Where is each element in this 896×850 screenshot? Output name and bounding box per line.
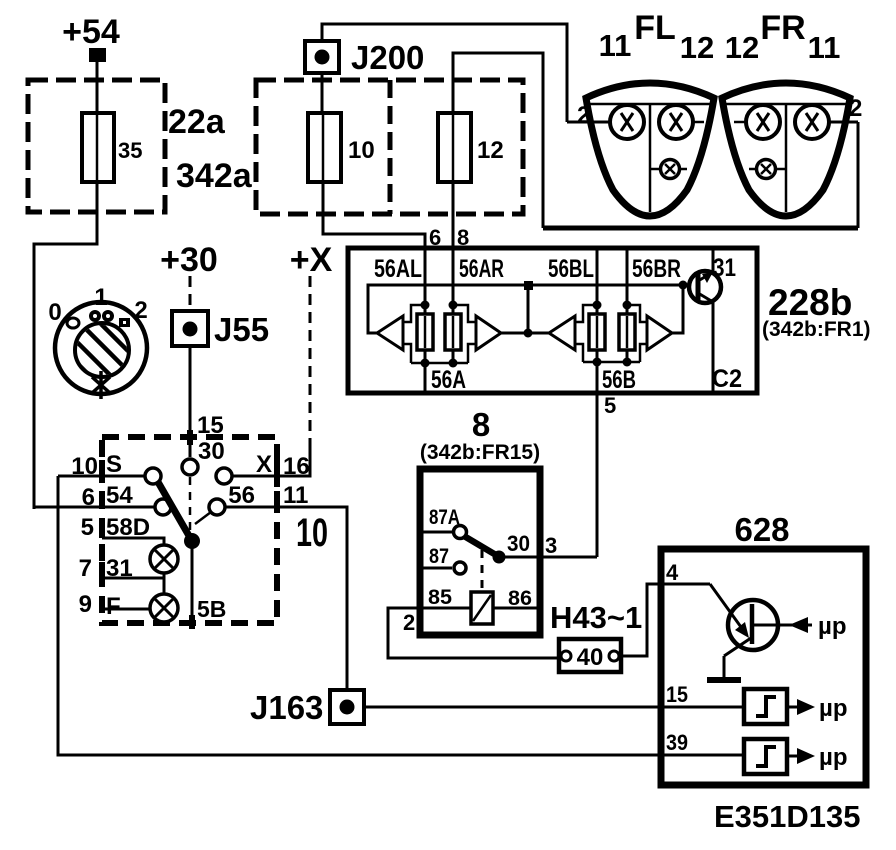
fuse box border [256,80,523,214]
wire +X to switch pin 16 [277,438,310,476]
svg-text:+X: +X [290,241,333,279]
svg-text:C2: C2 [712,365,742,393]
feed 56BR [623,248,632,367]
svg-text:11: 11 [599,28,632,63]
arrow from up at base [789,617,808,633]
fuse box divider [388,80,393,214]
svg-text:(342b:FR15): (342b:FR15) [420,441,540,464]
wire 87 [423,567,452,570]
svg-text:56AR: 56AR [459,255,504,283]
svg-text:12: 12 [725,30,759,65]
ignition switch [48,284,147,399]
wire between pilot lamps [163,572,166,594]
pin tick 58D [99,521,105,538]
wire +30 dashed [189,276,192,311]
connector J163 [250,689,364,726]
wire sensor bottoms A [411,362,468,365]
svg-text:1: 1 [94,284,107,311]
svg-text:µp: µp [819,744,848,771]
pilot lamp F [150,594,178,622]
svg-text:µp: µp [819,695,848,722]
svg-text:12: 12 [680,30,714,65]
svg-text:2: 2 [849,95,862,122]
fuse box 22a/342a border [28,80,165,212]
svg-text:8: 8 [472,406,490,443]
wire 87A [423,531,453,534]
fuse 35 [82,113,142,182]
wire pin S long run to 628 pin 39 [58,476,744,755]
svg-text:56A: 56A [431,366,466,394]
svg-text:FL: FL [634,9,676,47]
feed 56AR [449,248,458,368]
wire J200 feed to FL [322,24,567,122]
svg-text:12: 12 [477,137,504,164]
wire +54 to fuse box [96,62,99,113]
wire J55 to switch pin 15 [189,346,192,457]
comparator triangle left A [377,316,403,350]
svg-text:10: 10 [296,511,328,555]
svg-text:9: 9 [79,591,92,618]
pin tick 31 [99,562,105,579]
svg-text:H43~1: H43~1 [550,600,642,635]
svg-text:40: 40 [577,644,604,671]
fuse 12 [438,113,504,182]
feed 56BL (pin 5 out) [593,248,602,557]
connector J55 [172,311,269,348]
pin tick 15 [187,430,193,445]
svg-text:µp: µp [818,613,847,640]
svg-text:87: 87 [429,545,449,568]
pin tick X [274,460,280,477]
connector H43-1 [559,639,621,672]
contact 54 [155,499,171,515]
ground [707,656,741,680]
headlamp FR housing [722,83,850,216]
svg-text:X: X [256,451,272,478]
FR bulb 12 [746,105,780,139]
svg-text:54: 54 [106,482,133,509]
pin tick F [99,596,105,613]
wire +X dashed [309,276,312,441]
light switch border [102,437,277,623]
wire bottom rail lamps [543,226,858,231]
wire H43-1 to 628 pin 4 [621,584,710,656]
svg-text:F: F [106,593,121,620]
svg-text:2: 2 [134,297,147,324]
comparator triangle right B [647,316,672,350]
svg-text:11: 11 [283,482,308,509]
schmitt trigger 39 [744,739,787,774]
svg-text:15: 15 [666,682,688,707]
wire fuse 35 output down-left [34,182,97,509]
transistor 228b [689,250,721,391]
svg-text:7: 7 [79,555,92,582]
connector J200 [305,39,424,76]
wire comparator outputs B [672,281,688,334]
wire fuse 12 to 228b pin 8 [452,182,455,248]
svg-text:10: 10 [348,137,375,164]
pin tick 56 [274,491,280,508]
svg-text:30: 30 [198,438,225,465]
wire schmitt 15 out [787,706,798,709]
svg-text:+30: +30 [160,241,218,279]
arrow to up 39 [797,748,815,764]
svg-text:J163: J163 [250,689,323,726]
svg-text:FR: FR [760,9,805,47]
pin tick 5B [189,615,195,629]
wire pivot to 5B [191,541,194,623]
svg-text:56B: 56B [602,366,636,394]
wire relay 30 to pin 3 [499,556,597,559]
comparator triangle right A [476,316,501,350]
fuse 10 [308,113,375,182]
contact 87A [454,526,467,539]
FL bulb 12 [659,105,693,139]
wire fuse 12 feed to FR [453,53,543,228]
wire J163 to 628 pin 15 [364,706,744,709]
internal bus [368,285,688,333]
contact 30 [182,459,198,475]
wire pin 31 [102,577,164,580]
lever alternate stub [195,512,211,524]
wire pin 2 to H43-1 [388,608,561,658]
wire schmitt 39 out [787,755,798,758]
relay coil link dashed [481,550,484,590]
svg-text:15: 15 [197,412,224,439]
wire comparator outputs A [501,281,549,338]
wire dashed armature [189,477,192,532]
svg-text:342a: 342a [176,157,253,195]
svg-text:J55: J55 [214,311,269,348]
FR indicator bulb [749,160,786,179]
svg-text:39: 39 [666,730,688,755]
wire pin X [232,475,277,478]
unit 228b border [348,248,757,393]
headlamp FL housing [586,83,714,216]
svg-text:S: S [106,451,122,478]
FR bulb 11 [795,105,829,139]
contact 56 [209,499,225,515]
svg-text:2: 2 [577,102,590,129]
sensor 56BR [619,314,635,350]
FL bulb 11 [610,105,644,139]
node +54 [62,13,120,62]
wire through fuse 10 [321,73,324,113]
svg-text:11: 11 [808,30,841,65]
comparator triangle left B [549,316,575,350]
switch pivot [184,533,200,549]
svg-text:J200: J200 [351,39,424,76]
wire coil row [423,607,537,610]
relay lever [464,536,496,555]
svg-text:56BL: 56BL [548,255,594,283]
svg-text:(342b:FR1): (342b:FR1) [762,318,871,341]
sensor 56AR [445,314,461,350]
svg-text:4: 4 [666,560,679,585]
bracket sensor 56BR [628,305,647,322]
wire pin 54 [34,506,155,509]
feed 56AL [421,248,430,391]
pin tick S [99,460,105,477]
svg-text:3: 3 [545,533,557,558]
svg-text:22a: 22a [168,103,226,141]
wire pin S [58,475,145,478]
wire fuse 10 to 228b pin 6 [323,182,425,248]
contact X [216,468,232,484]
sensor 56AL [417,314,433,350]
transistor 628 [710,584,812,656]
svg-text:56BR: 56BR [632,255,681,283]
svg-text:5: 5 [604,393,616,418]
wire pin 5 to relay 30 [541,556,597,559]
bracket sensor 56BL [575,305,596,322]
pilot lamp 58D [150,545,178,573]
svg-text:5: 5 [81,514,94,541]
relay 8 border [420,469,540,635]
bracket sensor 56AL [403,305,424,322]
svg-text:30: 30 [507,531,530,556]
svg-text:5B: 5B [197,596,226,622]
svg-text:0: 0 [48,299,61,326]
arrow to up 15 [797,699,815,715]
svg-text:16: 16 [283,453,310,480]
wire pin 58D [102,538,164,545]
relay common dot [493,551,506,564]
svg-text:85: 85 [428,586,452,609]
pin tick 54 [99,491,105,508]
svg-text:628: 628 [734,511,789,548]
svg-text:228b: 228b [768,282,852,323]
ECU 628 border [661,549,866,785]
wire pin F [102,608,151,611]
switch lever [158,482,192,541]
wire FL pin 2 [567,121,704,124]
svg-text:56: 56 [228,482,255,509]
sensor 56BL [589,314,605,350]
FL indicator bulb [650,160,687,179]
schmitt trigger 15 [744,689,787,724]
svg-text:56AL: 56AL [374,255,422,283]
contact S [145,468,161,484]
bracket sensor 56AR [454,305,476,322]
svg-text:E351D135: E351D135 [714,799,861,834]
svg-text:+54: +54 [62,13,120,51]
wire FR pin 2 [734,122,858,228]
contact 87 [454,562,466,574]
relay coil [471,592,493,624]
wire pin 56 to J163 [225,507,347,690]
svg-text:35: 35 [118,138,142,163]
wire sensor bottoms B [583,361,640,364]
svg-text:2: 2 [403,610,415,635]
